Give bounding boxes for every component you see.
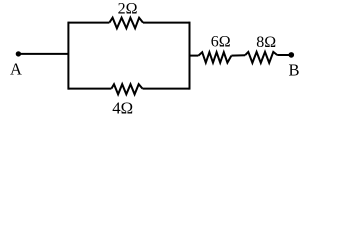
- wire: right vertical side of parallel loop: [189, 22, 191, 90]
- wire: loop output stub to resistor 6Ω: [190, 55, 199, 57]
- svg-text:6Ω: 6Ω: [211, 34, 231, 51]
- wire: bottom-right segment of loop: [143, 88, 190, 90]
- wire: top-right segment of loop: [143, 22, 190, 24]
- terminal dot at node B: [289, 52, 295, 58]
- svg-text:4Ω: 4Ω: [112, 99, 133, 118]
- svg-text:A: A: [10, 59, 22, 78]
- wire: resistor 8Ω to node B: [277, 54, 291, 56]
- terminal dot at node A: [16, 51, 21, 56]
- wire: left vertical side of parallel loop: [67, 22, 69, 90]
- svg-text:B: B: [288, 60, 299, 79]
- wire: top-left segment of loop: [68, 22, 109, 24]
- resistor 2Ω (top branch): [109, 18, 143, 29]
- resistor 8Ω: [245, 52, 277, 63]
- resistor 4Ω (bottom branch): [111, 84, 142, 94]
- svg-text:8Ω: 8Ω: [256, 34, 276, 51]
- wire: between resistor 6Ω and resistor 8Ω: [231, 54, 245, 56]
- resistor 6Ω: [198, 52, 231, 63]
- svg-text:2Ω: 2Ω: [118, 1, 138, 18]
- wire: bottom-left segment of loop: [68, 88, 111, 90]
- wire: node A to left side of parallel loop: [18, 53, 68, 55]
